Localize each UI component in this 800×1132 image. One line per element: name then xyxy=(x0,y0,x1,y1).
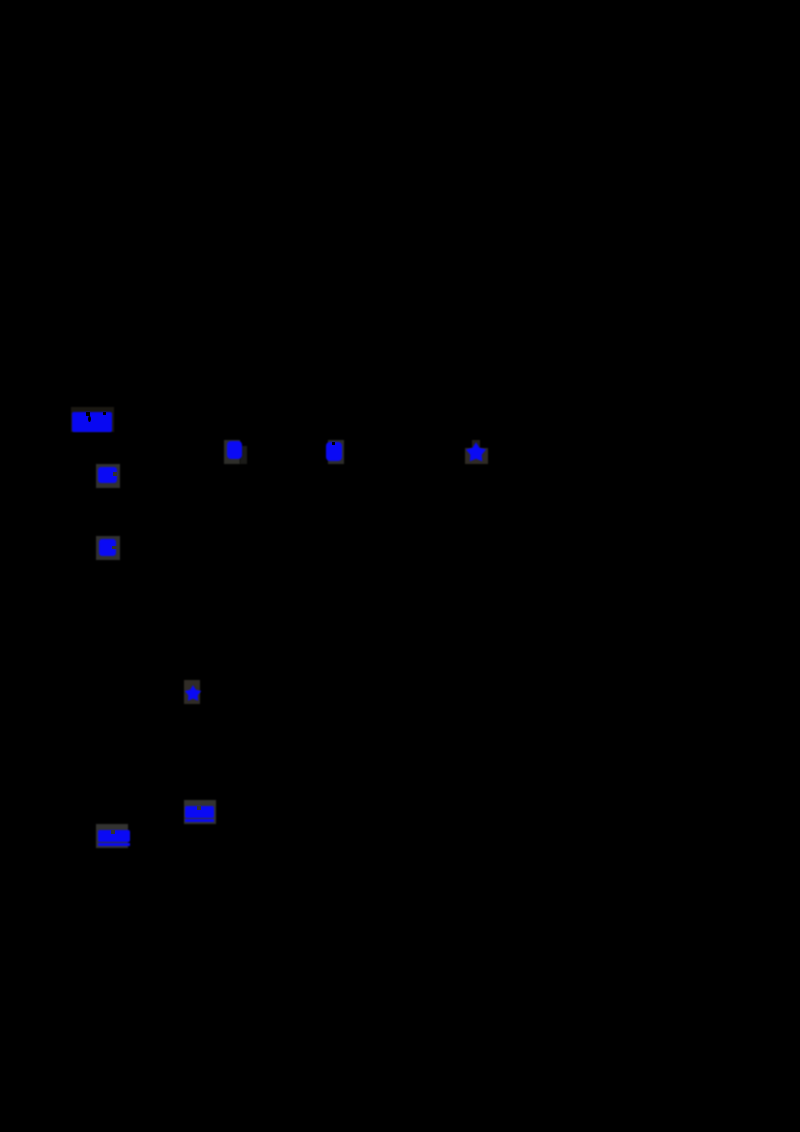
link box H xyxy=(184,800,216,824)
link box B xyxy=(96,464,121,488)
glyph E notch top xyxy=(332,442,335,445)
counter A xyxy=(88,416,91,422)
link box C xyxy=(96,536,121,560)
link text H xyxy=(185,806,214,819)
link box D ext xyxy=(240,446,247,464)
link box F xyxy=(465,448,488,464)
notch A2 xyxy=(103,412,106,415)
underline H xyxy=(185,819,214,822)
star icon G xyxy=(184,683,202,704)
link text A (bold blue tag) xyxy=(72,412,112,432)
link box F small xyxy=(472,440,480,448)
link box G xyxy=(184,680,200,704)
link glyph C xyxy=(99,539,116,555)
link glyph E xyxy=(326,442,342,461)
link glyph D xyxy=(227,441,243,459)
glyph C notch xyxy=(112,546,117,549)
link text I xyxy=(98,830,130,842)
glyph B notch xyxy=(113,472,117,476)
notch I xyxy=(111,830,115,834)
link box D xyxy=(224,440,240,464)
link box I xyxy=(96,824,128,848)
underline I xyxy=(98,843,130,845)
link glyph B xyxy=(98,467,117,483)
link box E xyxy=(328,440,344,464)
notch A1 xyxy=(86,412,90,416)
link box A (faint highlight behind tag) xyxy=(71,407,114,432)
star icon F xyxy=(465,441,487,464)
notch H xyxy=(197,806,201,810)
